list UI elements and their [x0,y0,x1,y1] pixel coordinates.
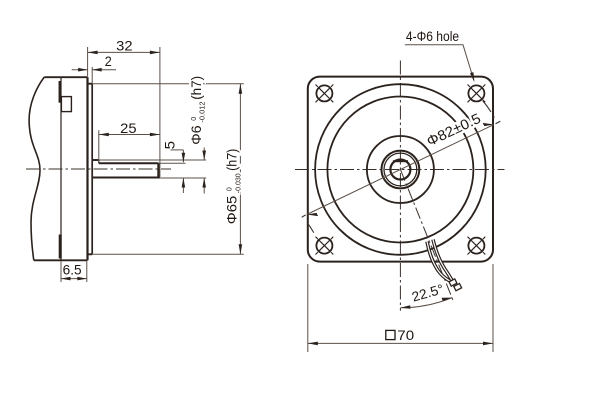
svg-text:-0.030: -0.030 [233,173,242,193]
svg-text:0: 0 [189,117,198,121]
svg-text:(h7): (h7) [189,76,205,100]
svg-text:(h7): (h7) [225,149,241,171]
svg-text:2: 2 [105,54,112,70]
svg-text:5: 5 [163,141,179,150]
svg-text:6.5: 6.5 [63,262,82,278]
svg-text:25: 25 [120,121,137,137]
svg-text:-0.012: -0.012 [198,101,207,122]
svg-text:4-Φ6 hole: 4-Φ6 hole [406,29,459,44]
svg-text:Φ6: Φ6 [189,125,205,145]
svg-text:70: 70 [397,328,414,344]
svg-text:Φ65: Φ65 [225,196,241,225]
svg-text:22.5°: 22.5° [410,281,445,304]
svg-text:32: 32 [116,38,133,54]
svg-text:0: 0 [225,187,234,191]
